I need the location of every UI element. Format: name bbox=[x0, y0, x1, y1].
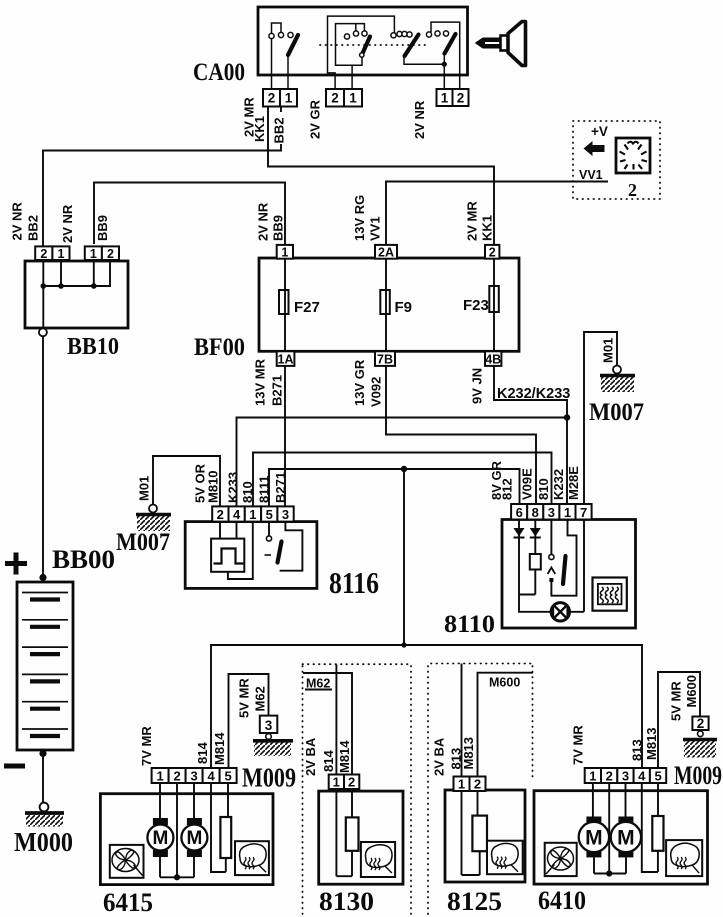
svg-text:814: 814 bbox=[321, 750, 336, 772]
svg-text:2V NR: 2V NR bbox=[412, 100, 427, 139]
svg-text:3: 3 bbox=[190, 769, 197, 784]
svg-text:8130: 8130 bbox=[319, 887, 374, 916]
svg-text:1: 1 bbox=[589, 769, 596, 784]
svg-text:6: 6 bbox=[516, 505, 523, 520]
svg-text:M62: M62 bbox=[252, 686, 267, 711]
svg-text:BB10: BB10 bbox=[67, 334, 119, 360]
svg-text:M01: M01 bbox=[601, 338, 616, 363]
svg-text:M813: M813 bbox=[644, 727, 659, 760]
svg-text:6415: 6415 bbox=[103, 888, 153, 917]
svg-text:814: 814 bbox=[195, 742, 210, 764]
svg-text:BB9: BB9 bbox=[95, 215, 110, 241]
svg-text:1: 1 bbox=[58, 247, 65, 261]
svg-text:2V NR: 2V NR bbox=[10, 202, 25, 241]
svg-text:M009: M009 bbox=[242, 763, 296, 793]
svg-text:B271: B271 bbox=[270, 375, 285, 406]
svg-text:M600: M600 bbox=[684, 675, 699, 708]
svg-text:V092: V092 bbox=[369, 377, 384, 407]
svg-text:1: 1 bbox=[285, 91, 293, 106]
svg-text:1A: 1A bbox=[278, 352, 294, 366]
svg-text:M813: M813 bbox=[461, 737, 476, 770]
svg-text:3: 3 bbox=[282, 507, 289, 522]
svg-text:5: 5 bbox=[224, 769, 231, 784]
svg-text:2: 2 bbox=[173, 769, 180, 784]
svg-text:F23: F23 bbox=[463, 297, 489, 314]
svg-text:2: 2 bbox=[606, 769, 613, 784]
svg-text:M007: M007 bbox=[589, 399, 644, 426]
svg-text:5: 5 bbox=[266, 507, 273, 522]
svg-text:2: 2 bbox=[331, 91, 339, 106]
svg-text:M000: M000 bbox=[14, 827, 73, 857]
svg-text:VV1: VV1 bbox=[579, 168, 603, 182]
svg-text:13V GR: 13V GR bbox=[352, 359, 367, 406]
svg-text:M814: M814 bbox=[212, 732, 227, 765]
svg-text:B271: B271 bbox=[273, 472, 288, 503]
svg-text:F9: F9 bbox=[395, 299, 413, 316]
svg-text:8116: 8116 bbox=[329, 565, 379, 600]
svg-text:4B: 4B bbox=[485, 352, 501, 366]
svg-text:4: 4 bbox=[207, 769, 215, 784]
svg-text:2: 2 bbox=[489, 246, 496, 260]
svg-text:2: 2 bbox=[217, 507, 224, 522]
svg-text:7B: 7B bbox=[377, 352, 393, 366]
svg-text:5: 5 bbox=[654, 769, 661, 784]
svg-text:1: 1 bbox=[441, 91, 449, 106]
svg-text:2: 2 bbox=[268, 91, 276, 106]
svg-text:2V BA: 2V BA bbox=[431, 737, 446, 776]
svg-text:+V: +V bbox=[591, 124, 608, 139]
svg-text:7V MR: 7V MR bbox=[139, 726, 154, 766]
svg-text:CA00: CA00 bbox=[193, 59, 245, 86]
svg-text:M: M bbox=[585, 827, 603, 850]
svg-text:M: M bbox=[617, 827, 635, 850]
svg-text:2V GR: 2V GR bbox=[308, 99, 323, 139]
svg-text:13V RG: 13V RG bbox=[352, 195, 367, 241]
svg-text:2: 2 bbox=[107, 247, 114, 261]
svg-text:1: 1 bbox=[564, 505, 571, 520]
svg-text:2: 2 bbox=[457, 91, 465, 106]
svg-text:8110: 8110 bbox=[444, 611, 495, 638]
svg-text:1: 1 bbox=[349, 91, 357, 106]
svg-text:1: 1 bbox=[156, 769, 163, 784]
svg-text:9V JN: 9V JN bbox=[470, 368, 485, 404]
svg-text:BF00: BF00 bbox=[194, 334, 245, 361]
svg-text:M600: M600 bbox=[489, 676, 520, 690]
svg-text:8125: 8125 bbox=[447, 887, 502, 916]
svg-text:7: 7 bbox=[580, 505, 587, 520]
svg-text:BB00: BB00 bbox=[52, 545, 115, 574]
svg-text:4: 4 bbox=[638, 769, 646, 784]
svg-text:VV1: VV1 bbox=[368, 216, 383, 241]
svg-text:BB2: BB2 bbox=[26, 215, 41, 241]
svg-text:2V BA: 2V BA bbox=[303, 737, 318, 776]
svg-text:810: 810 bbox=[536, 478, 551, 500]
svg-text:M: M bbox=[152, 828, 168, 849]
svg-text:1: 1 bbox=[458, 777, 465, 792]
svg-text:M009: M009 bbox=[674, 761, 722, 790]
svg-text:3: 3 bbox=[548, 505, 555, 520]
svg-text:M01: M01 bbox=[137, 476, 152, 501]
svg-text:M814: M814 bbox=[337, 740, 352, 773]
svg-text:1: 1 bbox=[90, 247, 97, 261]
svg-text:13V MR: 13V MR bbox=[252, 358, 267, 406]
svg-text:2: 2 bbox=[697, 716, 705, 731]
svg-text:KK1: KK1 bbox=[480, 215, 495, 241]
svg-text:2: 2 bbox=[628, 180, 637, 200]
svg-text:BB9: BB9 bbox=[270, 215, 285, 241]
svg-text:812: 812 bbox=[499, 478, 514, 500]
svg-text:4: 4 bbox=[233, 507, 241, 522]
svg-text:5V MR: 5V MR bbox=[237, 678, 252, 718]
svg-text:810: 810 bbox=[240, 481, 255, 503]
svg-text:3: 3 bbox=[622, 769, 629, 784]
svg-text:M28E: M28E bbox=[566, 466, 581, 500]
svg-text:V09E: V09E bbox=[520, 468, 535, 500]
svg-text:M810: M810 bbox=[205, 470, 220, 503]
svg-text:K232/K233: K232/K233 bbox=[497, 386, 570, 402]
svg-text:F27: F27 bbox=[294, 299, 320, 316]
svg-text:1: 1 bbox=[249, 507, 256, 522]
svg-text:M62: M62 bbox=[306, 677, 330, 691]
svg-text:K232: K232 bbox=[551, 469, 566, 500]
svg-text:3: 3 bbox=[265, 718, 273, 733]
svg-text:2V MR: 2V MR bbox=[465, 201, 480, 241]
svg-text:2V NR: 2V NR bbox=[256, 202, 271, 241]
svg-text:8: 8 bbox=[532, 505, 539, 520]
svg-text:1: 1 bbox=[333, 775, 340, 790]
svg-text:M: M bbox=[186, 828, 202, 849]
svg-text:6410: 6410 bbox=[538, 886, 586, 915]
svg-text:1: 1 bbox=[281, 246, 288, 260]
svg-text:2: 2 bbox=[348, 775, 355, 790]
svg-text:2V NR: 2V NR bbox=[60, 204, 75, 243]
svg-text:BB2: BB2 bbox=[272, 117, 287, 143]
svg-text:2A: 2A bbox=[378, 246, 394, 260]
svg-text:5V MR: 5V MR bbox=[669, 681, 684, 721]
svg-text:2: 2 bbox=[474, 777, 481, 792]
svg-text:KK1: KK1 bbox=[252, 116, 267, 142]
svg-text:813: 813 bbox=[630, 739, 645, 761]
svg-text:7V MR: 7V MR bbox=[571, 725, 586, 765]
svg-text:8111: 8111 bbox=[256, 476, 271, 504]
svg-text:K233: K233 bbox=[226, 472, 241, 503]
svg-text:2: 2 bbox=[40, 247, 47, 261]
svg-text:M007: M007 bbox=[116, 529, 170, 556]
